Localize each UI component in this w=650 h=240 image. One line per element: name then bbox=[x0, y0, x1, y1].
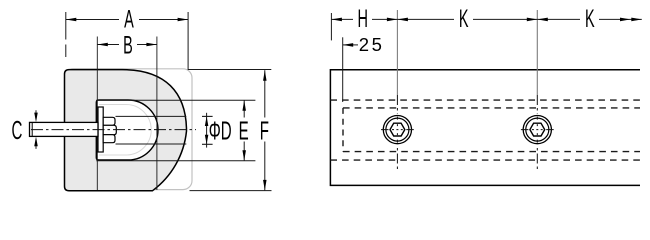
svg-text:K: K bbox=[459, 6, 469, 33]
svg-text:B: B bbox=[123, 33, 133, 60]
dimension F line bottom part bbox=[264, 142, 266, 191]
B extension line left bbox=[96, 37, 98, 191]
dimension C upper arrow bbox=[35, 110, 37, 113]
bolt 1 hex bbox=[390, 123, 405, 136]
svg-text:ΦD: ΦD bbox=[209, 116, 232, 145]
dimension K1 line left part bbox=[397, 18, 454, 20]
hidden channel top inner dashed bbox=[343, 107, 640, 109]
ghost inner cavity (alternate size) bbox=[99, 105, 151, 156]
inner D-shaped cavity bbox=[96, 100, 158, 160]
bolt 2 extension line from dimensions bbox=[536, 10, 538, 95]
dimension E line top part bbox=[243, 100, 245, 117]
dimension K1 left arrow bbox=[397, 18, 408, 22]
bolt 1 washer circle bbox=[386, 118, 409, 141]
bolt 2 centerline vertical upper bbox=[536, 95, 538, 114]
dimension PhiD up arrow bbox=[205, 116, 209, 126]
hidden hole line bottom bbox=[116, 143, 187, 145]
rail body front view bbox=[330, 70, 640, 186]
dimension B line right part bbox=[137, 44, 157, 46]
bolt 2 head outer circle bbox=[523, 116, 551, 144]
dimension PhiD bottom tick bbox=[202, 143, 213, 145]
extension line cavity bottom (E) bbox=[96, 160, 255, 162]
F bottom extension line bbox=[190, 190, 272, 192]
dimension B left arrow bbox=[97, 43, 108, 47]
dimension K2 left arrow bbox=[537, 18, 548, 22]
dimension F down arrow bbox=[263, 180, 267, 191]
dimension B line left part bbox=[97, 44, 119, 46]
bolt 1 head outer circle bbox=[383, 116, 411, 144]
hidden channel bottom inner dashed bbox=[343, 151, 640, 153]
dimension 25 line with arrow bbox=[343, 44, 358, 46]
dimension K2 line right part bbox=[599, 18, 642, 20]
dimension A left arrow bbox=[66, 18, 77, 22]
bolt 1 cross centerline dashes and dots bbox=[381, 117, 414, 143]
svg-text:H: H bbox=[357, 6, 367, 33]
bolt 1 centerline vertical lower bbox=[396, 148, 398, 170]
washer plate bbox=[98, 107, 103, 152]
hidden channel top outer dashed bbox=[330, 99, 640, 101]
dimension PhiD vertical line bbox=[206, 113, 208, 148]
dimension K2 continuation arrow 1 bbox=[620, 18, 631, 22]
hex nut side view top facet bbox=[103, 117, 115, 125]
svg-text:25: 25 bbox=[359, 34, 385, 55]
svg-text:F: F bbox=[260, 116, 269, 145]
dimension PhiD down arrow bbox=[205, 135, 209, 145]
bolt 2 washer circle bbox=[526, 118, 549, 141]
bolt end cap line bbox=[31, 122, 33, 136]
dimension E up arrow bbox=[242, 100, 246, 111]
centerline horizontal bbox=[31, 129, 196, 131]
dimension K1 right arrow bbox=[527, 18, 538, 22]
svg-text:K: K bbox=[585, 6, 595, 33]
bolt 2 centerline vertical lower bbox=[536, 148, 538, 170]
svg-text:C: C bbox=[11, 116, 22, 145]
B extension line right bbox=[156, 37, 158, 191]
hex nut side view bottom facet bbox=[103, 135, 115, 143]
dimension F line top part bbox=[264, 70, 266, 117]
dimension E line bottom part bbox=[243, 142, 245, 161]
svg-text:E: E bbox=[239, 116, 249, 145]
dimension C lower arrow bbox=[35, 146, 37, 149]
hidden hole line top bbox=[116, 115, 187, 117]
dimension A line left part bbox=[66, 19, 119, 21]
dimension A extension left bbox=[65, 12, 67, 57]
hex nut side view middle facet bbox=[103, 125, 116, 134]
dimension B right arrow bbox=[146, 43, 157, 47]
dimension H right arrow bbox=[387, 18, 398, 22]
dimension K2 line left part bbox=[537, 18, 580, 20]
hidden channel left dashed vertical bbox=[342, 108, 344, 152]
svg-text:A: A bbox=[124, 7, 134, 34]
dimension H line right part bbox=[372, 18, 397, 20]
dimension PhiD top tick bbox=[202, 115, 213, 117]
body of bumper (side profile) bbox=[65, 70, 187, 191]
bolt 2 cross centerline dashes and dots bbox=[521, 117, 554, 143]
dimension H left arrow bbox=[331, 18, 342, 22]
hidden channel bottom outer dashed bbox=[330, 159, 640, 161]
bolt 2 hex bbox=[530, 123, 545, 136]
bolt 1 centerline vertical upper bbox=[396, 95, 398, 114]
dimension K1 line right part bbox=[473, 18, 537, 20]
bolt shaft bbox=[30, 122, 99, 136]
dimension 25 extension line bbox=[342, 37, 344, 102]
dimension A right arrow bbox=[178, 18, 189, 22]
dimension A line right part bbox=[139, 19, 188, 21]
dimension H line left part bbox=[331, 18, 353, 20]
dimension E down arrow bbox=[242, 150, 246, 161]
dimension K2 continuation arrow 2 bbox=[631, 18, 642, 22]
bolt 1 extension line from dimensions bbox=[396, 10, 398, 95]
dimension H extension left bbox=[330, 13, 332, 40]
ghost outline (alternate size variant) bbox=[65, 69, 193, 190]
extension line cavity top (E) bbox=[96, 99, 255, 101]
dimension F up arrow bbox=[263, 70, 267, 81]
dimension A extension right and F top extension bbox=[188, 12, 271, 70]
